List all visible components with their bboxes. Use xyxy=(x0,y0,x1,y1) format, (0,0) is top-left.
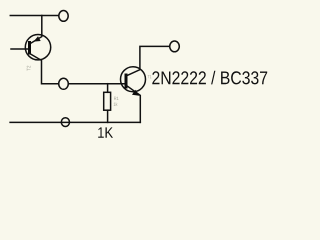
wire resistor R1 bottom lead xyxy=(107,110,109,122)
wire base net to Q2 xyxy=(68,83,125,85)
wire Q1 collector down and right xyxy=(29,53,58,83)
label Q1 designator T2 (faint, vertical) xyxy=(27,66,31,71)
transistor Q2 base bar xyxy=(125,73,128,88)
wire Q2 collector up to output xyxy=(127,46,170,75)
label R1 value small (faint) xyxy=(114,102,118,105)
label R1 value 1K xyxy=(98,127,113,137)
transistor Q1 base bar xyxy=(28,41,31,55)
label R1 designator (faint) xyxy=(114,97,118,100)
transistor Q2 emitter arrow (points out, NPN) xyxy=(132,90,139,96)
wire bottom ground rail xyxy=(10,121,140,123)
wire top supply rail xyxy=(10,15,58,17)
junction pin P3 (bottom, wire passes through) xyxy=(61,118,69,127)
transistor Q1 (PNP) body circle xyxy=(25,35,50,60)
label Q2 designator T1 (faint) xyxy=(148,75,152,78)
wire Q1 emitter to top rail xyxy=(30,16,42,44)
connector pin P1 (top left) xyxy=(59,11,68,22)
transistor Q2 (NPN 2N2222/BC337) body circle xyxy=(121,67,146,92)
wire Q2 emitter to ground rail xyxy=(127,86,140,123)
connector pin P4 (top right output) xyxy=(170,41,180,52)
transistor Q1 emitter arrow (points to base, PNP) xyxy=(34,36,41,41)
wire resistor R1 top lead xyxy=(107,84,109,93)
wire Q1 base lead xyxy=(11,48,28,50)
connector pin P2 (middle) xyxy=(59,78,69,89)
resistor R1 body xyxy=(104,92,111,110)
label Q2 part number xyxy=(152,71,267,85)
